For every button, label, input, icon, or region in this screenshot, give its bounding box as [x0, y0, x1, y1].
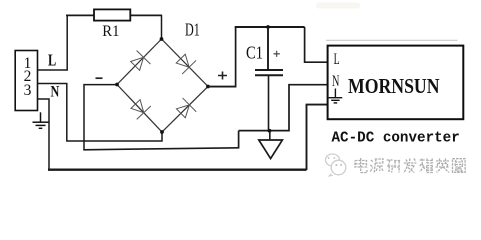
svg-text:AC-DC converter: AC-DC converter — [332, 130, 460, 146]
svg-text:L: L — [334, 51, 340, 68]
svg-text:3: 3 — [24, 82, 32, 99]
svg-text:D1: D1 — [185, 19, 200, 39]
svg-text:MORNSUN: MORNSUN — [348, 74, 440, 98]
svg-text:L: L — [48, 51, 56, 70]
svg-text:R1: R1 — [102, 23, 119, 40]
svg-text:N: N — [51, 83, 60, 100]
svg-text:N: N — [332, 73, 339, 90]
svg-text:C1: C1 — [246, 43, 263, 63]
